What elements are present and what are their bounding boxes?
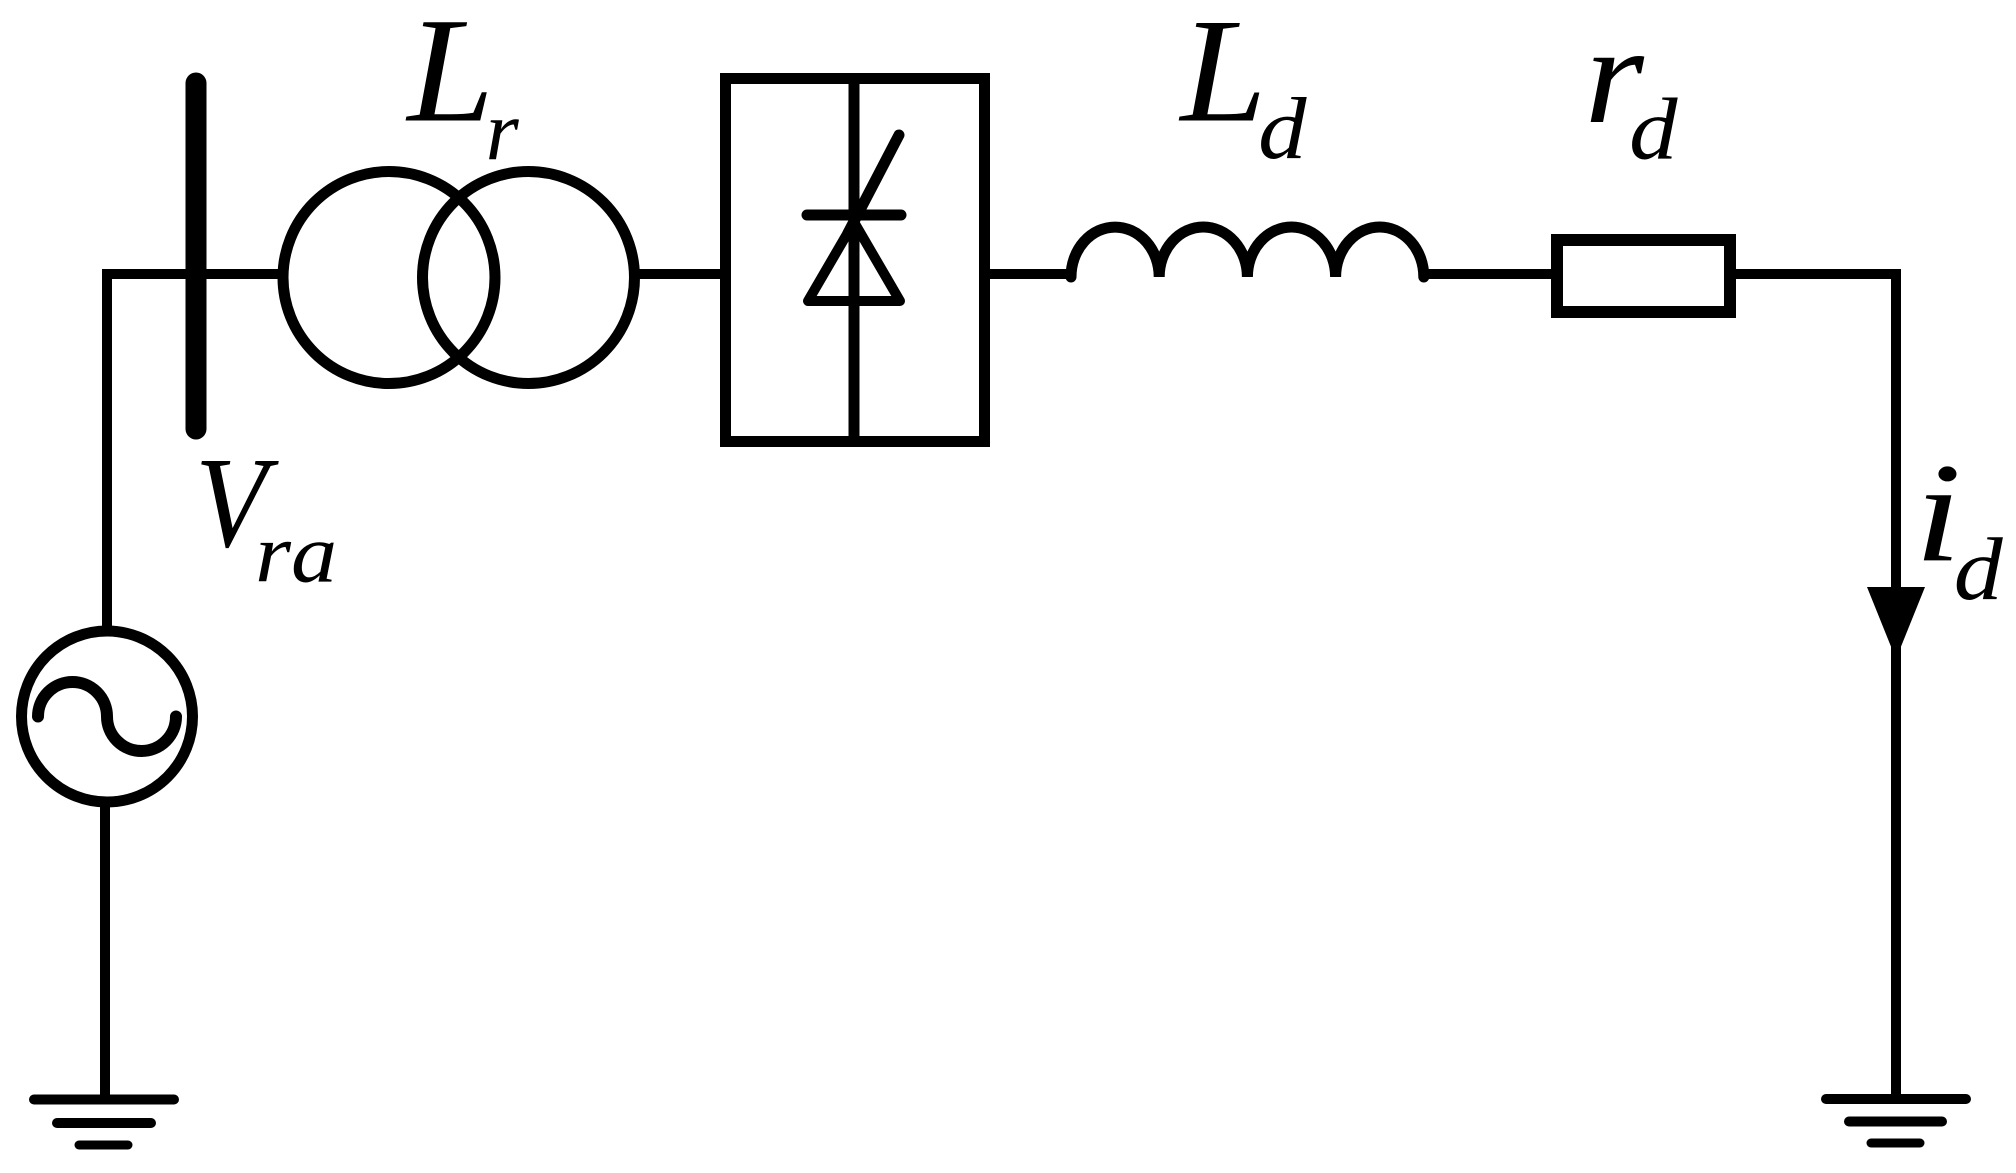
svg-text:L: L <box>1178 0 1266 153</box>
wire: top-left corner horizontal segment from left riser to transformer <box>102 269 284 279</box>
svg-text:d: d <box>1629 81 1678 178</box>
transformer L_r primary winding circle <box>283 172 495 384</box>
svg-text:d: d <box>1954 521 2003 619</box>
wire: left vertical riser from corner down to AC source top <box>102 269 112 628</box>
inductor L_d coil (4 arcs) <box>1071 227 1424 277</box>
transformer L_r secondary winding circle <box>423 172 635 384</box>
ground: right ground symbol <box>1826 1099 1966 1143</box>
wire: transformer to converter box <box>630 269 725 279</box>
converter U1 outline box <box>726 79 985 442</box>
wire: right vertical drop from corner to ground <box>1891 269 1901 1099</box>
arrow: current direction i_d <box>1867 587 1925 659</box>
wire: inductor to resistor <box>1423 269 1557 279</box>
label i_d <box>1914 434 2003 619</box>
label r_d <box>1585 0 1679 178</box>
label V_ra <box>195 430 337 601</box>
label L_r <box>405 0 519 178</box>
thyristor gate diagonal <box>848 135 899 233</box>
svg-text:r: r <box>486 84 520 178</box>
wire: converter box to inductor <box>984 269 1075 279</box>
AC source sine wave <box>38 682 176 751</box>
svg-text:d: d <box>1258 81 1307 178</box>
ground: left ground symbol <box>34 1100 174 1146</box>
resistor r_d body <box>1557 240 1730 312</box>
wire: resistor to top-right corner <box>1736 269 1901 279</box>
converter U1 internal vertical divider <box>849 73 860 447</box>
node: bus bar V_ra <box>186 83 207 429</box>
AC source Vs circle <box>22 631 193 802</box>
svg-text:ra: ra <box>255 507 337 600</box>
thyristor triangle <box>808 222 900 301</box>
wire: AC source bottom to ground <box>100 802 110 1095</box>
thyristor cathode bar <box>807 210 901 221</box>
label L_d <box>1178 0 1307 178</box>
svg-text:L: L <box>405 0 494 154</box>
